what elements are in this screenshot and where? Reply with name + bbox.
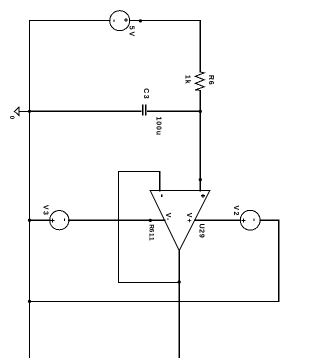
svg-text:R6: R6 xyxy=(207,75,214,86)
svg-text:100u: 100u xyxy=(154,117,161,136)
svg-text:5V: 5V xyxy=(128,26,135,38)
svg-text:R611: R611 xyxy=(148,224,155,241)
svg-text:V+: V+ xyxy=(185,213,192,224)
svg-text:1k: 1k xyxy=(183,75,190,85)
svg-text:V3: V3 xyxy=(42,205,49,217)
svg-text:C3: C3 xyxy=(142,88,149,100)
svg-text:V-: V- xyxy=(164,213,171,222)
svg-text:V2: V2 xyxy=(232,205,239,217)
svg-text:U29: U29 xyxy=(198,224,205,238)
